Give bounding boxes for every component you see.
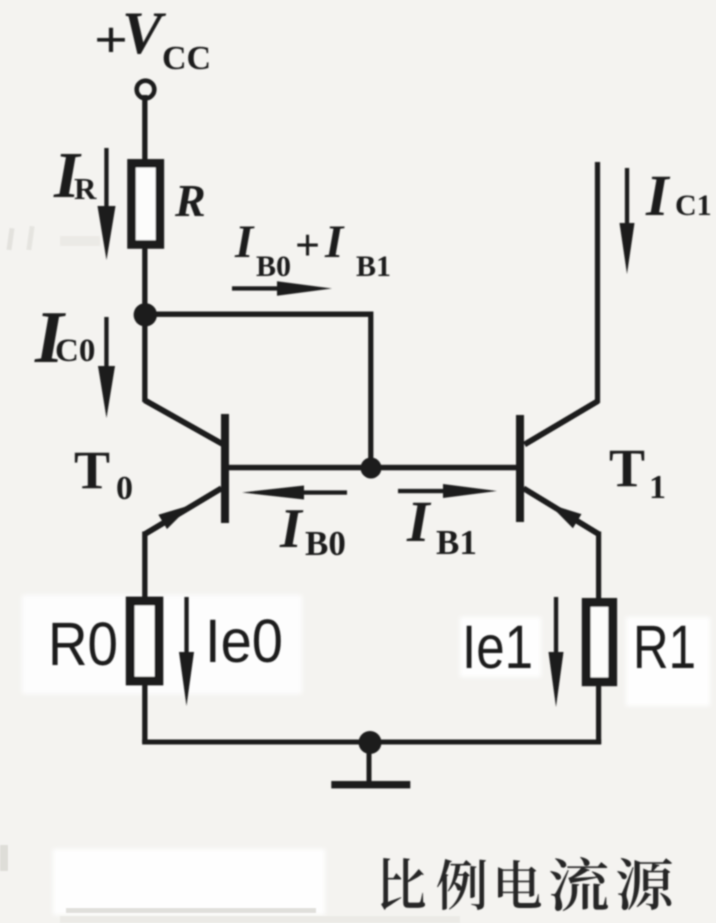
white paste box bottom-left: [53, 849, 325, 915]
bottom rail wire: [142, 740, 601, 745]
caption char 流: [550, 857, 608, 911]
svg-text:C0: C0: [55, 333, 95, 369]
current arrow I_R: [104, 148, 108, 218]
svg-text:R: R: [74, 171, 97, 206]
white paste box behind R1: [626, 617, 710, 706]
current arrow IB0+IB1 (top, pointing right): [232, 286, 287, 290]
left edge smudge: [0, 845, 8, 871]
white paste box behind Ie1: [460, 617, 541, 677]
svg-text:0: 0: [116, 470, 133, 507]
current arrow I_C0: [104, 317, 108, 375]
svg-text:I: I: [234, 216, 255, 268]
base junction dot: [361, 458, 382, 479]
gray streak under white box: [66, 908, 316, 913]
node A dot: [134, 303, 157, 326]
resistor R0: [130, 601, 159, 681]
svg-text:1: 1: [649, 469, 666, 506]
caption char 电: [498, 860, 541, 908]
ground bar: [331, 781, 410, 788]
wire base column vertical: [368, 312, 373, 469]
transistor T1 emitter wire: [524, 488, 599, 534]
svg-text:C1: C1: [675, 189, 712, 222]
svg-text:R1: R1: [633, 613, 696, 681]
base rail wire T0 to T1: [227, 465, 517, 471]
svg-text:B0: B0: [305, 524, 346, 563]
wire T1 collector vertical up: [595, 162, 600, 403]
transistor T0 base bar: [221, 414, 229, 523]
svg-text:B0: B0: [256, 250, 291, 283]
scan smudge marks left middle: [6, 226, 100, 250]
current arrow I_B0 (pointing left): [297, 490, 347, 494]
svg-text:R: R: [174, 175, 206, 226]
current arrow I_B1 (pointing right): [398, 489, 448, 493]
ground junction dot: [359, 731, 382, 754]
transistor T0 emitter wire: [145, 488, 222, 534]
svg-text:B1: B1: [436, 523, 477, 562]
white paste box behind R0 Ie0: [22, 595, 302, 694]
svg-text:Ie0: Ie0: [205, 607, 283, 675]
svg-text:I: I: [324, 216, 345, 268]
svg-text:I: I: [406, 489, 432, 554]
bottom edge scan streak: [60, 916, 460, 923]
transistor T1 emitter arrowhead: [549, 504, 582, 528]
svg-text:B1: B1: [356, 250, 391, 283]
ground stem: [367, 742, 372, 782]
current arrow Ie0: [184, 597, 188, 659]
resistor R1: [586, 602, 613, 681]
wire Vcc to resistor R: [142, 95, 147, 165]
svg-text:I: I: [645, 163, 671, 228]
Vcc terminal circle: [137, 81, 155, 99]
wire T1 emitter down to R1: [596, 532, 601, 603]
svg-text:V: V: [122, 0, 167, 66]
transistor T1 collector wire diagonal: [525, 401, 599, 445]
svg-text:R0: R0: [48, 610, 118, 678]
current arrow I_C1: [625, 168, 629, 230]
wire resistor R to node A: [142, 246, 147, 316]
wire R0 to bottom rail: [142, 684, 147, 743]
wire T0 emitter down to R0: [142, 532, 147, 602]
caption char 例: [437, 859, 486, 910]
current arrow Ie1: [554, 597, 558, 659]
svg-text:I: I: [279, 498, 304, 560]
caption char 比: [381, 858, 425, 910]
svg-text:CC: CC: [162, 40, 211, 77]
caption char 源: [617, 858, 672, 910]
wire R1 to bottom rail: [596, 684, 601, 744]
wire T0 collector diagonal: [145, 400, 223, 444]
svg-text:Ie1: Ie1: [462, 613, 533, 681]
wire node A to T0 collector bend: [142, 313, 147, 402]
transistor T1 base bar: [516, 415, 524, 522]
svg-text:T: T: [74, 440, 110, 500]
transistor T0 emitter arrowhead: [158, 505, 191, 529]
svg-text:T: T: [609, 438, 645, 498]
svg-text:+: +: [295, 221, 320, 270]
resistor R: [132, 163, 160, 244]
wire node A to base column (horizontal): [145, 312, 372, 317]
